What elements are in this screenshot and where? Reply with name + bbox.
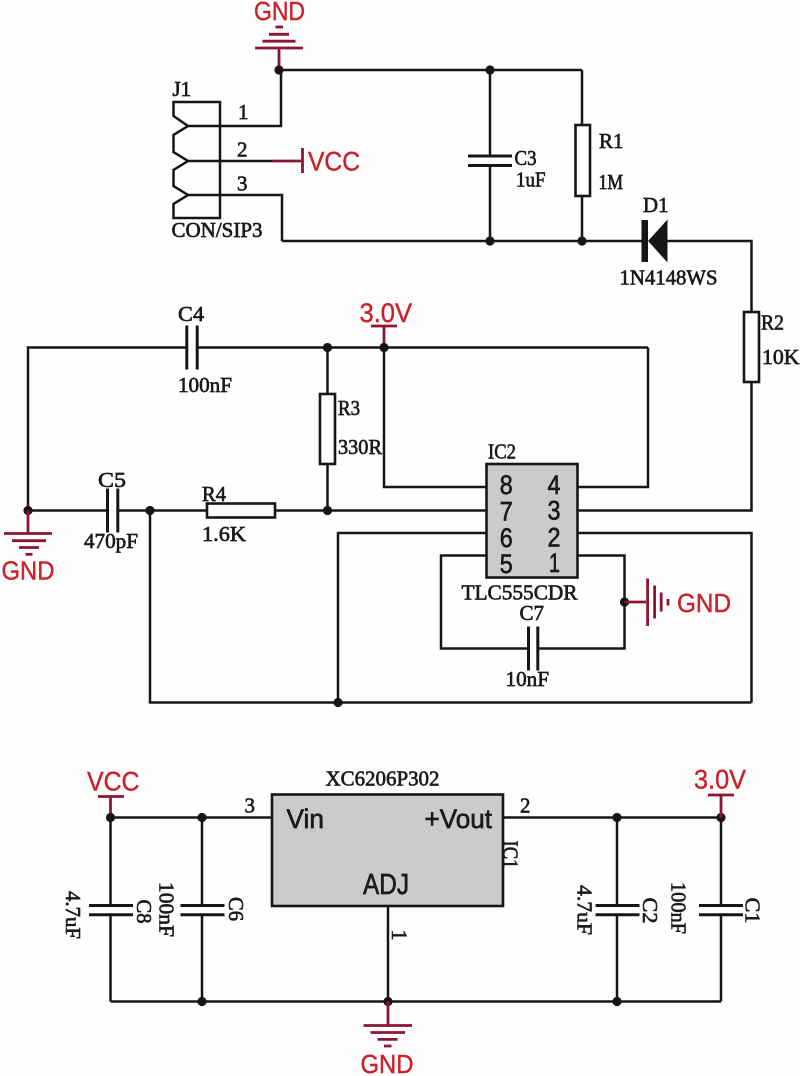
junction R1 bottom: [577, 236, 586, 245]
wire 3.0V rail left: [28, 348, 187, 511]
diode D1: [620, 193, 718, 290]
svg-text:1M: 1M: [599, 170, 624, 194]
power VCC bottom: [87, 767, 140, 818]
svg-text:7: 7: [500, 497, 513, 527]
svg-text:R4: R4: [202, 482, 226, 506]
wire IC2 pin8 branch: [384, 348, 486, 488]
wire Vin rail: [111, 816, 273, 819]
junction pin6 bottom: [333, 698, 342, 707]
svg-text:4.7uF: 4.7uF: [573, 885, 597, 935]
wire top rail: [279, 69, 582, 72]
svg-text:C2: C2: [638, 898, 662, 924]
power VCC (J1 pin2): [272, 147, 360, 177]
svg-text:330R: 330R: [338, 435, 382, 459]
capacitor C7: [506, 601, 550, 691]
svg-text:GND: GND: [254, 0, 305, 26]
wire J1 pin2: [188, 160, 272, 163]
svg-text:D1: D1: [643, 193, 669, 217]
svg-text:1: 1: [238, 100, 249, 124]
svg-text:C4: C4: [178, 302, 205, 326]
svg-text:2: 2: [237, 138, 248, 162]
svg-text:1.6K: 1.6K: [202, 522, 246, 546]
junction gnd left: [23, 506, 32, 515]
svg-text:3.0V: 3.0V: [694, 765, 746, 795]
junction C6 top: [197, 813, 206, 822]
junction ADJ gnd: [383, 997, 392, 1006]
svg-text:VCC: VCC: [87, 767, 140, 797]
svg-text:J1: J1: [173, 77, 192, 101]
wire IC2 pin2 branch: [578, 533, 752, 703]
capacitor C5: [84, 468, 138, 553]
IC timer IC2: [462, 440, 578, 605]
svg-text:3: 3: [548, 496, 561, 526]
capacitor C6: [155, 818, 249, 1002]
resistor R1: [576, 70, 624, 241]
junction C3 top: [485, 65, 494, 74]
svg-text:10K: 10K: [762, 345, 800, 369]
svg-text:3: 3: [245, 794, 256, 818]
svg-text:R3: R3: [338, 396, 360, 420]
svg-text:GND: GND: [361, 1049, 414, 1076]
svg-text:470pF: 470pF: [84, 529, 138, 553]
svg-text:VCC: VCC: [308, 147, 360, 177]
capacitor C1: [667, 818, 765, 1002]
svg-text:Vin: Vin: [287, 804, 325, 834]
svg-text:100nF: 100nF: [667, 882, 691, 934]
wire pin7 row: [28, 509, 486, 512]
svg-text:XC6206P302: XC6206P302: [326, 767, 440, 791]
junction C5 right: [145, 506, 154, 515]
svg-text:1N4148WS: 1N4148WS: [620, 266, 718, 290]
svg-text:3.0V: 3.0V: [360, 298, 413, 328]
wire IC2 pin5 branch: [441, 556, 529, 649]
svg-text:GND: GND: [677, 588, 731, 618]
wire IC2 pin6 branch: [338, 533, 487, 703]
ground GND top: [254, 0, 305, 70]
wire lower row (J1 pin3 to D1): [282, 240, 642, 243]
junction top-gnd: [274, 65, 283, 74]
wire Vout rail: [503, 816, 721, 819]
wire bottom row (pin7 net): [150, 511, 752, 703]
wire R2 bottom to IC2 pin3: [578, 382, 752, 511]
power 3.0V (mid): [360, 298, 413, 348]
svg-text:10nF: 10nF: [506, 667, 550, 691]
wire ADJ pin: [387, 906, 390, 1002]
svg-text:1uF: 1uF: [516, 168, 546, 192]
svg-text:C8: C8: [132, 900, 156, 924]
svg-text:+Vout: +Vout: [425, 804, 493, 834]
resistor R4: [202, 482, 275, 546]
svg-text:4.7uF: 4.7uF: [61, 891, 85, 939]
wire IC2 pin1 branch: [538, 556, 625, 649]
ground GND right (rotated): [625, 579, 732, 627]
svg-text:GND: GND: [2, 556, 55, 586]
svg-text:C1: C1: [741, 898, 765, 924]
svg-text:C6: C6: [224, 897, 248, 921]
power 3.0V bottom: [694, 765, 746, 818]
wire bottom gnd rail: [111, 1000, 722, 1003]
svg-text:C5: C5: [98, 468, 126, 492]
svg-text:IC2: IC2: [488, 440, 516, 464]
svg-text:1: 1: [387, 930, 412, 941]
capacitor C3: [468, 70, 546, 241]
junction 3.0V bottom: [716, 813, 725, 822]
capacitor C2: [573, 818, 663, 1002]
svg-text:R1: R1: [599, 129, 624, 153]
svg-text:C7: C7: [520, 601, 545, 625]
junction pin1 gnd: [620, 597, 629, 606]
junction 3.0V rail: [379, 343, 388, 352]
svg-text:2: 2: [520, 794, 531, 818]
ground GND bottom: [361, 1002, 414, 1076]
svg-text:100nF: 100nF: [155, 882, 179, 937]
wire J1 pin1: [188, 70, 281, 126]
junction C2 bottom: [612, 997, 621, 1006]
junction C6 bottom: [197, 997, 206, 1006]
svg-text:3: 3: [237, 172, 248, 196]
svg-text:ADJ: ADJ: [363, 869, 409, 901]
junction R3 top: [323, 343, 332, 352]
wire D1 to R2: [668, 241, 752, 312]
svg-text:100nF: 100nF: [178, 373, 232, 397]
ground GND left: [2, 511, 55, 586]
wire IC2 pin4 branch: [578, 348, 649, 488]
svg-text:IC1: IC1: [499, 841, 523, 869]
resistor R3: [320, 348, 382, 511]
wire 3.0V rail right: [197, 346, 648, 349]
svg-text:1: 1: [549, 548, 560, 578]
svg-text:5: 5: [500, 549, 513, 579]
wire J1 pin3: [188, 195, 282, 241]
capacitor C8: [61, 818, 156, 1002]
resistor R2: [744, 311, 800, 383]
svg-text:8: 8: [500, 470, 513, 500]
svg-text:CON/SIP3: CON/SIP3: [172, 218, 263, 242]
IC regulator IC1: [272, 767, 523, 907]
connector J1: [172, 77, 263, 242]
junction R3 bottom: [323, 506, 332, 515]
svg-text:C3: C3: [515, 146, 537, 170]
junction C3 bottom: [485, 236, 494, 245]
svg-text:R2: R2: [761, 311, 784, 335]
junction VCC: [106, 813, 115, 822]
capacitor C4: [178, 302, 232, 397]
junction C2 top: [612, 813, 621, 822]
